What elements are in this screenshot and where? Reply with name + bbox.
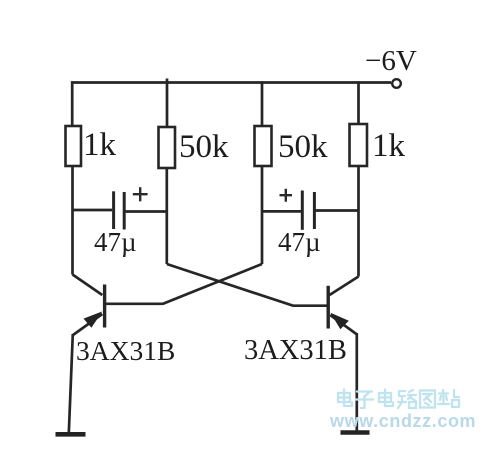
resistor R2 50k (left) xyxy=(159,127,176,168)
svg-text:47µ: 47µ xyxy=(94,227,137,257)
wire below R2 down to diagonal start xyxy=(165,168,168,264)
ground symbol left (bar) xyxy=(56,432,86,437)
transistor Q1 emitter lead xyxy=(73,314,102,335)
wire capacitor C1 left lead xyxy=(72,209,112,212)
wire below R3 down to diagonal start xyxy=(261,166,264,264)
wire cross-coupling diagonal from node B2 (R3/C2) to Q1 base xyxy=(106,264,263,304)
transistor Q2 emitter lead xyxy=(330,315,357,335)
svg-text:50k: 50k xyxy=(179,129,229,165)
svg-text:−6V: −6V xyxy=(365,45,417,77)
wire Q2 emitter vertical to ground xyxy=(355,333,358,431)
char tu xyxy=(420,391,435,408)
resistor R3 50k (right) xyxy=(255,126,272,166)
svg-text:1k: 1k xyxy=(83,127,117,163)
svg-text:3AX31B: 3AX31B xyxy=(244,335,347,366)
svg-text:50k: 50k xyxy=(278,129,328,165)
wire Q2 collector lead from right branch xyxy=(330,277,359,296)
wire capacitor C2 right lead to node xyxy=(316,209,359,212)
wire top supply rail xyxy=(71,81,391,84)
char lu xyxy=(398,390,416,408)
transistor Q2 base bar xyxy=(327,286,330,329)
transistor Q1 emitter arrow (PNP, points to base) xyxy=(85,313,101,327)
wire cross-coupling diagonal from node B1 (R2/C1) to Q2 base xyxy=(167,264,327,306)
terminal circle -6V xyxy=(392,79,401,88)
wire left branch vertical (x=72) xyxy=(71,81,74,126)
char zhan xyxy=(438,390,459,407)
wire Q1 emitter vertical to ground xyxy=(69,334,73,433)
wire branch 4 vertical (x=358) xyxy=(357,81,360,124)
resistor R1 1k (left) xyxy=(66,126,82,166)
transistor Q2 emitter arrow (PNP, points to base) xyxy=(332,314,347,328)
capacitor C1 plate right xyxy=(123,192,126,230)
svg-text:3AX31B: 3AX31B xyxy=(76,335,175,366)
transistor Q1 base bar xyxy=(103,285,106,328)
wire branch 2 vertical (x=167) with overshoot above rail xyxy=(166,79,169,128)
wire capacitor C1 right lead to node xyxy=(126,210,168,213)
wire below R1 down past cap junction xyxy=(71,166,74,275)
watermark line 1: 电子电路图站 drawn as vector strokes xyxy=(338,390,459,409)
capacitor C2 left lead xyxy=(262,210,301,213)
plus sign of C2 xyxy=(280,189,293,202)
char dian xyxy=(338,390,352,407)
plus sign of C1 xyxy=(133,187,148,201)
wire below R4 down to collector bend xyxy=(357,166,360,277)
svg-text:1k: 1k xyxy=(372,128,406,164)
svg-text:www.cndzz.com: www.cndzz.com xyxy=(329,411,476,431)
wire branch 3 vertical (x=262) xyxy=(261,81,264,126)
svg-text:47µ: 47µ xyxy=(278,227,321,257)
capacitor C2 plate right xyxy=(313,192,316,229)
resistor R4 1k (right) xyxy=(350,124,368,166)
capacitor C2 plate left xyxy=(301,191,304,230)
capacitor C1 plate left xyxy=(112,191,115,229)
wire Q1 collector lead from left branch xyxy=(73,275,103,296)
char dian xyxy=(379,390,393,407)
ground symbol right (bar) xyxy=(341,430,370,435)
char zi xyxy=(356,392,373,409)
